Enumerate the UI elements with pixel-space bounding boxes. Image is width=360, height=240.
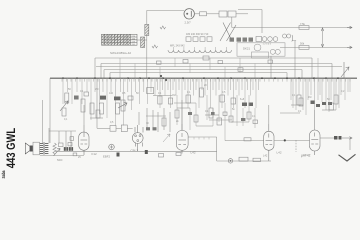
wire ticks [194,137,209,139]
svg-text:2,5/7: 2,5/7 [185,21,192,25]
switch arrows S4 [220,23,236,42]
choke L1 [145,25,149,36]
component box [159,154,164,158]
wire [291,104,303,106]
wire [97,127,110,129]
heater circles [262,34,291,46]
wire [41,100,43,143]
title Saba 443 GWL [0,127,18,178]
output transformer T6 [33,142,48,155]
scallop ticks [173,47,226,50]
capacitor C10 [64,147,66,151]
wire [49,130,76,132]
component left of V1 [70,137,74,141]
coil bank wires left [63,78,151,125]
wire [322,28,324,48]
rail stubs [120,58,318,78]
wire [236,13,248,15]
rail drop [94,58,96,78]
wire [146,36,148,79]
wire V3 to corner [188,136,217,138]
svg-text:CBL1: CBL1 [131,149,139,153]
svg-text:100: 100 [109,92,114,95]
wire [209,119,232,121]
corner mark chevron [339,154,356,161]
tier2 components right [299,98,334,110]
wire [153,95,172,97]
capacitor C13 [71,147,73,151]
pot arrow [54,148,61,155]
coil L2 [292,35,296,41]
svg-text:443 GWL: 443 GWL [5,127,18,168]
capacitor C6 [68,143,72,146]
svg-text:5000: 5000 [57,159,63,162]
arrow out 1 [347,26,352,29]
output line [232,27,352,29]
rail drop [311,58,313,78]
svg-text:MFL 243 942: MFL 243 942 [170,45,185,48]
wire [146,10,148,24]
wire [177,107,190,109]
wire [152,110,154,130]
speaker SP1 [25,143,32,154]
resistor R10 [59,143,64,147]
arrow out 2 [347,46,352,49]
component below V3 [176,153,181,156]
choke L1b [141,37,145,48]
svg-text:1M: 1M [172,94,175,97]
resistor R3 [299,46,309,50]
antenna symbol [341,62,349,78]
wire [65,131,67,147]
bottom bus 1 [56,150,217,152]
coupling capacitor C3 [334,136,342,140]
coil bank components left [74,88,154,101]
output line 2 [280,46,352,48]
switch box S2 [219,11,227,17]
left feed wire [49,78,51,143]
wire [261,10,263,34]
wire [138,112,140,125]
junction dot [284,139,286,141]
svg-text:50k: 50k [300,42,305,46]
wire [196,125,213,127]
wire [96,78,98,128]
tube V4 [264,124,274,161]
svg-text:7,5k: 7,5k [300,22,306,26]
wire [90,117,103,119]
resistor R4 [160,26,166,29]
wire [48,128,50,143]
wire arrow [342,137,352,140]
wire [169,112,171,132]
wire [58,131,60,143]
resistor R9 [253,158,261,161]
resistor R1 [200,12,207,16]
arrowhead down [321,44,324,47]
dashed AVC wire [295,140,297,152]
svg-text:L42: L42 [263,154,268,158]
wire [268,105,270,124]
rail drop [100,64,102,79]
wire [314,110,316,130]
wire [231,121,249,123]
wire [205,114,219,116]
svg-text:SWL23/89A+42: SWL23/89A+42 [110,51,131,55]
right section wires [291,78,350,130]
wire corner drop [216,137,218,161]
box note [252,52,269,58]
wire [238,9,262,11]
svg-text:1 2 3 4 5: 1 2 3 4 5 [263,44,272,46]
wire [147,9,184,11]
svg-text:8+8: 8+8 [240,98,245,101]
coil bank wires mid [155,78,259,130]
tier2 components mid [175,110,258,125]
pilot lamp LA1 [184,9,194,19]
chassis bus [50,77,357,79]
rail drop [103,70,105,79]
wire [270,56,272,78]
wire [146,115,166,117]
mid components tier2 [62,99,127,132]
oscillator coil row L3 [168,50,232,53]
chassis bus hatching [62,79,350,82]
wire [163,108,165,130]
heater rail 3 [96,66,342,68]
resistor R2 [299,26,309,30]
wire [294,41,296,78]
tube detail box U-sockets [237,43,285,56]
wire [157,112,159,132]
switch arrow near V2 [163,134,170,142]
capacitor C12 [69,147,71,151]
svg-text:Saba: Saba [0,170,6,179]
svg-text:180 240 300 90 710: 180 240 300 90 710 [186,33,209,36]
resistor R7 [73,153,77,156]
svg-text:DK21: DK21 [243,47,250,51]
wire [194,13,199,15]
IF resistor row [186,37,262,42]
capacitor C5 [244,138,251,141]
detector line [274,139,310,141]
capacitor C8 [146,127,150,130]
svg-text:2M: 2M [95,88,98,91]
wire [322,109,336,111]
wire [70,131,72,147]
wire [320,137,334,139]
rail components [157,56,273,71]
wire [181,100,183,124]
arrowhead up [321,28,324,31]
wire [231,17,233,28]
capacitor C11 [66,147,68,151]
svg-text:L42: L42 [277,151,282,155]
rail drop [109,73,111,79]
resistor R11 [162,118,166,126]
vertical feeds above tubes [83,105,85,125]
heater rail 4 [104,69,302,71]
tier2 wires mid [177,95,255,141]
wire [207,13,220,15]
wire [280,112,300,114]
resistor R8 [239,157,248,161]
bus junction dots [62,77,339,79]
heater rail 2 [101,63,332,65]
wire [146,108,148,128]
bottom bus 3 [217,160,271,162]
tube V5 [310,130,321,155]
jack PU [109,144,115,150]
tier2 wires right [293,78,348,115]
rail drop [331,64,333,79]
transformer core [43,142,46,154]
wire to V4 grid [225,140,264,142]
svg-text:F12: F12 [92,152,98,156]
tube V3 [176,124,188,154]
svg-text:1M: 1M [308,96,311,99]
switch box S3 [228,11,236,17]
rail drop [301,70,303,79]
svg-text:L42: L42 [191,151,196,155]
wire [174,102,196,104]
wire [137,39,147,41]
capacitor C9 [153,127,157,130]
tube V2 CBL1 [132,125,143,151]
local ground wire [40,155,84,157]
tube V1 F12 [79,125,89,155]
switch contacts [160,75,167,81]
capacitor C1 [145,150,148,154]
resistor R5 [152,45,158,48]
heater rail 5 [110,72,287,74]
resistor R6 [65,93,69,103]
svg-text:µAF42: µAF42 [301,154,311,158]
volume pot zigzag [53,143,56,154]
wire [349,138,351,150]
switch arrow S5 [60,101,68,111]
jack J2 [228,159,232,163]
right components [297,95,338,105]
svg-text:EBF2: EBF2 [103,155,110,159]
wire [127,127,132,129]
voltage selector block S1 [102,34,138,46]
wire [116,127,121,129]
capacitor C2 [117,153,120,157]
rail drop [286,73,288,79]
mid tier components [158,88,253,118]
heater rail 1 [95,57,312,59]
